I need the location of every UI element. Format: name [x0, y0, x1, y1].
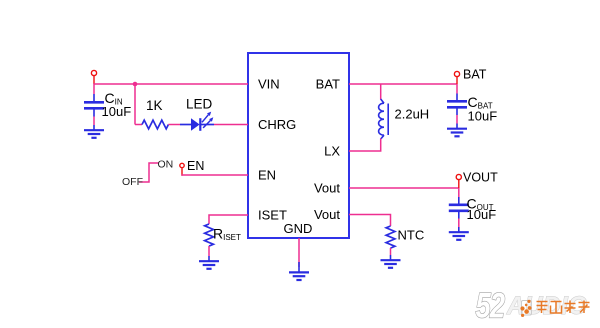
svg-text:LED: LED	[186, 97, 213, 112]
ground (IC GND)	[289, 262, 309, 280]
inductor L1 2.2uH	[379, 99, 389, 139]
wire input down to CIN	[93, 83, 95, 94]
wire RISET to ground	[208, 246, 210, 256]
LED D1	[180, 112, 214, 131]
wire LED to CHRG pin	[214, 124, 248, 126]
svg-text:CHRG: CHRG	[258, 117, 296, 132]
svg-text:VIN: VIN	[258, 77, 280, 92]
svg-text:BAT: BAT	[463, 68, 487, 82]
svg-text:2.2uH: 2.2uH	[395, 107, 430, 122]
resistor R 1K	[142, 120, 168, 129]
svg-text:52: 52	[476, 286, 506, 325]
svg-text:Vout: Vout	[314, 207, 340, 222]
wire BAT pin to BAT terminal	[349, 83, 457, 85]
watermark orange molecule icon	[520, 300, 531, 317]
wire VIN (input terminal to VIN pin)	[94, 83, 248, 85]
svg-text:10uF: 10uF	[102, 104, 132, 119]
svg-text:VOUT: VOUT	[463, 171, 498, 185]
svg-text:LX: LX	[324, 144, 340, 159]
svg-text:Vout: Vout	[314, 181, 340, 196]
terminal VOUT	[456, 174, 461, 188]
svg-text:10uF: 10uF	[467, 207, 497, 222]
wire COUT to ground	[458, 219, 460, 228]
wire Vout lower to NTC	[349, 215, 391, 227]
wire EN to pin	[181, 174, 248, 176]
svg-text:EN: EN	[187, 159, 204, 173]
capacitor C_BAT	[447, 94, 467, 116]
svg-text:EN: EN	[258, 168, 276, 183]
wire VOUT down to COUT	[458, 188, 460, 197]
resistor NTC	[386, 226, 395, 248]
svg-text:10uF: 10uF	[468, 109, 498, 124]
wire BAT tee down to inductor	[380, 84, 382, 100]
capacitor C_IN	[84, 94, 104, 117]
svg-text:AUDIO: AUDIO	[506, 293, 587, 320]
wire NTC to ground	[390, 248, 392, 255]
watermark company name strokes	[537, 301, 590, 314]
ground (NTC)	[381, 255, 401, 268]
svg-text:ON: ON	[158, 159, 174, 171]
wire 1K to LED	[168, 124, 180, 126]
wire Vout upper to VOUT terminal	[349, 187, 459, 189]
wire CIN to ground	[93, 117, 95, 126]
ground (R_ISET)	[199, 256, 219, 269]
ground (C_BAT)	[447, 124, 467, 137]
svg-text:NTC: NTC	[398, 228, 425, 243]
ground (C_IN)	[84, 125, 104, 138]
terminal EN	[180, 163, 184, 175]
wire ISET pin to resistor	[209, 215, 248, 224]
wire CBAT to ground	[456, 115, 458, 124]
wire GND pin down	[298, 238, 300, 267]
wire inductor to LX	[349, 139, 381, 152]
svg-text:BAT: BAT	[316, 77, 340, 92]
svg-text:OFF: OFF	[122, 176, 143, 188]
node junction on VIN wire	[133, 82, 138, 87]
wire BAT terminal down to CBAT	[456, 84, 458, 94]
op-amp U1 (charger IC body)	[248, 53, 349, 238]
wire junction down to CHRG row	[134, 84, 136, 125]
ground (C_OUT)	[449, 227, 469, 240]
capacitor C_OUT	[449, 197, 469, 219]
resistor R_ISET	[205, 224, 214, 246]
switch ON/OFF step wire	[139, 163, 159, 182]
terminal input (top-left)	[91, 70, 96, 84]
wire to resistor 1K	[135, 124, 142, 126]
terminal BAT	[454, 71, 459, 84]
svg-text:GND: GND	[284, 221, 313, 236]
svg-text:1K: 1K	[146, 98, 163, 113]
